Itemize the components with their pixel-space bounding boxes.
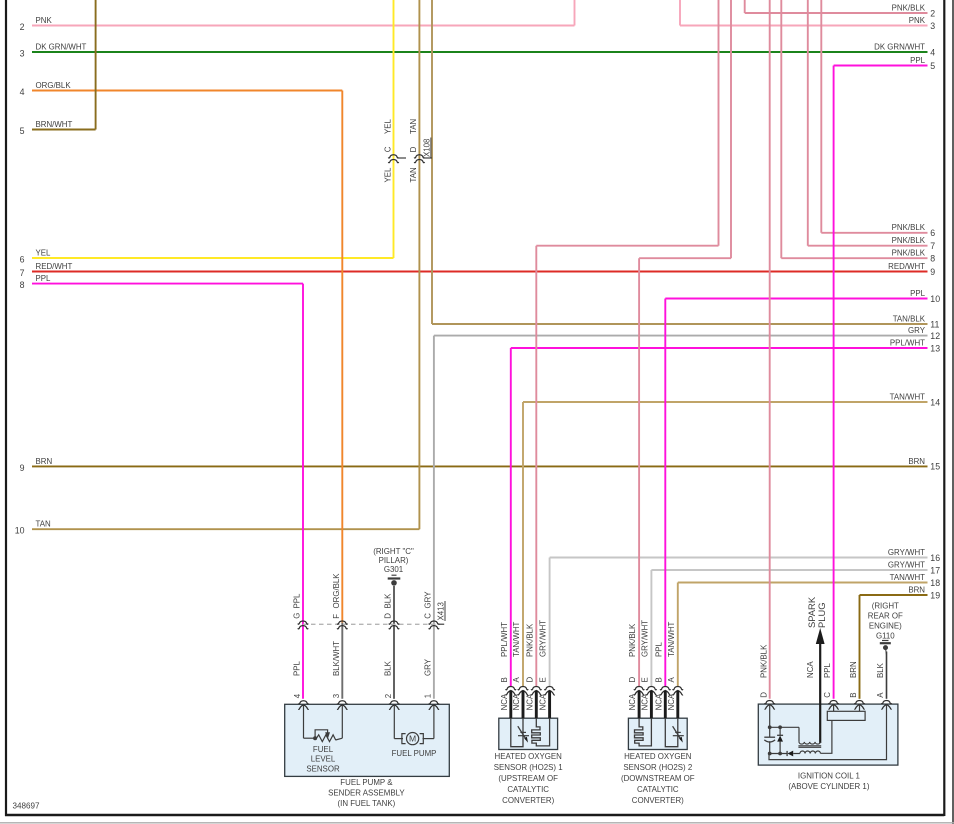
svg-text:PPL: PPL [293,593,302,609]
svg-text:PILLAR): PILLAR) [379,556,409,565]
svg-text:GRY/WHT: GRY/WHT [641,620,650,657]
svg-text:12: 12 [930,331,940,341]
svg-text:YEL: YEL [36,248,52,257]
svg-text:BLK: BLK [384,593,393,609]
svg-text:4: 4 [20,87,25,97]
svg-text:GRY/WHT: GRY/WHT [539,620,548,657]
svg-text:SENSOR (HO2S) 2: SENSOR (HO2S) 2 [623,763,692,772]
svg-text:7: 7 [20,268,25,278]
svg-text:GRY: GRY [424,591,433,609]
svg-text:RED/WHT: RED/WHT [36,262,73,271]
svg-text:B: B [654,677,663,682]
svg-text:REAR OF: REAR OF [868,612,903,621]
svg-text:6: 6 [20,255,25,265]
svg-text:E: E [641,677,650,682]
svg-text:SENDER ASSEMBLY: SENDER ASSEMBLY [328,789,405,798]
svg-text:GRY/WHT: GRY/WHT [888,548,925,557]
svg-text:G110: G110 [876,631,895,640]
svg-text:DK GRN/WHT: DK GRN/WHT [36,42,87,51]
svg-text:FUEL: FUEL [313,745,334,754]
svg-text:TAN/WHT: TAN/WHT [890,573,926,582]
svg-text:PNK/BLK: PNK/BLK [892,249,926,258]
svg-text:D: D [759,692,768,698]
svg-text:NCA: NCA [806,661,815,678]
svg-text:A: A [512,677,521,683]
svg-text:NCA: NCA [500,693,509,710]
svg-text:IGNITION COIL 1: IGNITION COIL 1 [798,772,860,781]
svg-text:CONVERTER): CONVERTER) [502,796,554,805]
svg-text:ENGINE): ENGINE) [869,622,902,631]
svg-text:3: 3 [930,21,935,31]
svg-text:D: D [409,146,418,152]
svg-text:8: 8 [20,280,25,290]
svg-text:(RIGHT: (RIGHT [872,601,899,610]
svg-text:17: 17 [930,565,940,575]
svg-text:BLK/WHT: BLK/WHT [332,641,341,676]
svg-text:13: 13 [930,343,940,353]
svg-text:RED/WHT: RED/WHT [888,262,925,271]
svg-text:YEL: YEL [383,167,392,183]
svg-text:D: D [384,613,393,619]
svg-text:5: 5 [20,126,25,136]
svg-text:B: B [500,677,509,682]
svg-text:NCA: NCA [667,693,676,710]
svg-text:HEATED OXYGEN: HEATED OXYGEN [624,752,692,761]
svg-text:8: 8 [930,254,935,264]
svg-text:SENSOR: SENSOR [306,764,340,773]
svg-text:(DOWNSTREAM OF: (DOWNSTREAM OF [621,774,695,783]
svg-text:CATALYTIC: CATALYTIC [637,785,679,794]
svg-text:10: 10 [930,294,940,304]
svg-text:C: C [424,613,433,619]
svg-text:B: B [849,692,858,697]
svg-text:BRN: BRN [908,457,925,466]
svg-text:FUEL PUMP: FUEL PUMP [392,749,437,758]
svg-text:ORG/BLK: ORG/BLK [332,573,341,609]
svg-text:(UPSTREAM OF: (UPSTREAM OF [498,774,558,783]
svg-text:16: 16 [930,553,940,563]
svg-text:PPL: PPL [823,662,832,678]
svg-text:NCA: NCA [628,693,637,710]
svg-text:PNK/BLK: PNK/BLK [892,3,926,12]
svg-text:10: 10 [15,526,25,536]
svg-text:18: 18 [930,578,940,588]
svg-text:PPL: PPL [910,56,926,65]
svg-text:2: 2 [930,8,935,18]
svg-text:TAN/WHT: TAN/WHT [512,621,521,657]
svg-text:TAN/BLK: TAN/BLK [893,314,926,323]
svg-text:D: D [628,677,637,683]
svg-text:14: 14 [930,397,940,407]
svg-text:PPL: PPL [293,660,302,676]
svg-text:BRN/WHT: BRN/WHT [36,120,73,129]
svg-text:PLUG: PLUG [816,602,827,628]
svg-text:BRN: BRN [849,661,858,678]
svg-text:PNK/BLK: PNK/BLK [759,644,768,678]
svg-text:PNK/BLK: PNK/BLK [892,236,926,245]
svg-text:PPL/WHT: PPL/WHT [890,338,925,347]
svg-text:7: 7 [930,241,935,251]
svg-text:PNK: PNK [909,16,926,25]
svg-text:(IN FUEL TANK): (IN FUEL TANK) [338,799,396,808]
svg-text:SENSOR (HO2S) 1: SENSOR (HO2S) 1 [494,763,563,772]
svg-text:GRY/WHT: GRY/WHT [888,560,925,569]
svg-text:YEL: YEL [383,118,392,134]
svg-text:PPL: PPL [36,274,52,283]
svg-text:G301: G301 [384,565,403,574]
svg-text:NCA: NCA [654,693,663,710]
svg-text:5: 5 [930,61,935,71]
svg-text:3: 3 [332,693,341,698]
svg-text:E: E [539,677,548,682]
svg-text:6: 6 [930,228,935,238]
svg-text:ORG/BLK: ORG/BLK [36,81,72,90]
svg-text:11: 11 [930,319,939,329]
svg-text:TAN: TAN [409,167,418,182]
svg-text:DK GRN/WHT: DK GRN/WHT [874,42,925,51]
svg-text:M: M [409,734,416,744]
svg-text:TAN/WHT: TAN/WHT [667,621,676,657]
svg-text:CATALYTIC: CATALYTIC [507,785,549,794]
svg-text:F: F [332,614,341,619]
svg-text:1: 1 [424,694,433,698]
svg-text:BRN: BRN [36,457,53,466]
svg-text:A: A [667,677,676,683]
svg-text:NCA: NCA [525,693,534,710]
svg-text:4: 4 [293,693,302,698]
svg-text:PPL: PPL [654,641,663,657]
svg-text:NCA: NCA [539,693,548,710]
svg-text:15: 15 [930,462,940,472]
svg-text:C: C [383,146,392,152]
svg-text:(RIGHT "C": (RIGHT "C" [373,547,414,556]
svg-text:PPL: PPL [910,289,926,298]
svg-text:TAN/WHT: TAN/WHT [890,392,926,401]
svg-text:9: 9 [20,463,25,473]
svg-text:LEVEL: LEVEL [311,755,336,764]
svg-text:NCA: NCA [512,693,521,710]
svg-text:GRY: GRY [424,658,433,676]
svg-text:PNK/BLK: PNK/BLK [892,223,926,232]
svg-text:GRY: GRY [908,326,926,335]
svg-text:2: 2 [20,22,25,32]
svg-text:HEATED OXYGEN: HEATED OXYGEN [495,752,563,761]
svg-text:BRN: BRN [908,585,925,594]
svg-text:X108: X108 [423,138,432,157]
svg-text:BLK: BLK [384,660,393,676]
svg-text:BLK: BLK [876,662,885,678]
svg-text:CONVERTER): CONVERTER) [632,796,684,805]
svg-text:FUEL PUMP &: FUEL PUMP & [340,778,393,787]
svg-text:3: 3 [20,49,25,59]
svg-text:19: 19 [930,590,940,600]
svg-text:NCA: NCA [641,693,650,710]
svg-text:2: 2 [384,694,393,698]
svg-text:A: A [876,692,885,698]
svg-text:X413: X413 [437,601,446,620]
svg-text:TAN: TAN [36,520,51,529]
svg-text:PNK/BLK: PNK/BLK [525,623,534,657]
svg-text:4: 4 [930,47,935,57]
svg-text:PPL/WHT: PPL/WHT [500,622,509,657]
svg-text:9: 9 [930,267,935,277]
svg-text:G: G [293,613,302,619]
svg-text:D: D [525,677,534,683]
svg-text:C: C [823,692,832,698]
svg-text:PNK/BLK: PNK/BLK [628,623,637,657]
svg-text:348697: 348697 [13,802,41,811]
svg-text:(ABOVE CYLINDER 1): (ABOVE CYLINDER 1) [788,782,869,791]
svg-text:PNK: PNK [36,16,53,25]
svg-text:TAN: TAN [409,119,418,134]
